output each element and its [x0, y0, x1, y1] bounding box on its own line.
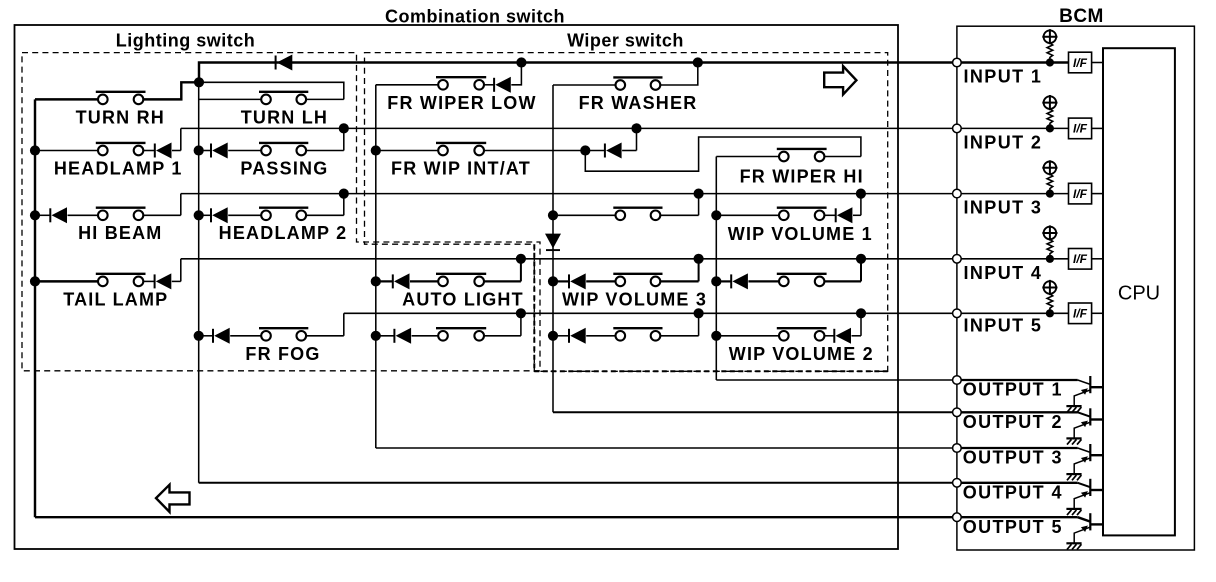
junction INPUT 4 right switch [856, 254, 866, 264]
svg-text:Combination switch: Combination switch [385, 7, 565, 27]
wire HEADLAMP 1 to diode [143, 150, 155, 152]
junction FR WIP INT/AT on x375.8 [371, 145, 381, 155]
junction INPUT 4 WIP VOLUME 3 [694, 254, 704, 264]
wire AUTO LIGHT diode feed [376, 280, 393, 282]
svg-text:OUTPUT 3: OUTPUT 3 [963, 448, 1063, 468]
wire TURN LH left [199, 98, 262, 100]
wire I/F INPUT 1 to CPU [1092, 62, 1103, 64]
svg-text:I/F: I/F [1073, 307, 1088, 321]
Wiper switch dashed box [365, 53, 888, 372]
svg-text:FR WIP INT/AT: FR WIP INT/AT [391, 158, 531, 178]
wire down to PASSING right contact [343, 128, 345, 150]
junction resistor INPUT 2 [1046, 124, 1054, 132]
junction INPUT 3 to HEADLAMP 2 [339, 189, 349, 199]
wire INPUT 3 line [181, 193, 957, 195]
wire I/F INPUT 4 to CPU [1092, 258, 1103, 260]
wire down to middle lower switch [698, 313, 700, 336]
junction FR WIPER LOW on INPUT 1 [516, 57, 526, 67]
wire down to middle switch right contact [698, 194, 700, 216]
wire OUTPUT 4 to transistor [961, 482, 1078, 484]
node OUTPUT 5 [953, 513, 962, 522]
wire vertical x375.8 to OUTPUT 3 [375, 85, 377, 448]
svg-text:OUTPUT 2: OUTPUT 2 [963, 412, 1063, 432]
wire TURN RH left [35, 98, 98, 100]
switch AUTO LIGHT [436, 274, 486, 286]
node OUTPUT 4 [953, 479, 962, 488]
junction middle switch on x553 [548, 210, 558, 220]
wire FR FOG right [306, 335, 344, 337]
diode D17 downward on x553 [545, 234, 561, 251]
wire FR WIPER HI right [824, 156, 861, 158]
svg-text:TURN LH: TURN LH [241, 108, 328, 128]
switch FR WIPER LOW [436, 77, 486, 89]
switch middle lower [613, 328, 662, 340]
svg-text:I/F: I/F [1073, 252, 1088, 266]
wire INPUT 4 corner down to TAIL LAMP diode [180, 259, 182, 282]
power symbol INPUT 4 [1042, 225, 1057, 240]
junction WIP VOLUME 2 on x716.3 [711, 331, 721, 341]
wire OUTPUT 5 line [35, 516, 957, 518]
junction middle lower switch on x553 [548, 331, 558, 341]
wire I/F INPUT 2 to CPU [1092, 127, 1103, 129]
wire WIP VOLUME 1 left [716, 214, 779, 216]
junction HI BEAM on left bus [30, 210, 40, 220]
wire FR WIP INT/AT right [484, 150, 605, 152]
wire FR WIPER LOW left [376, 84, 438, 86]
wire middle switch right [660, 214, 698, 216]
switch HEADLAMP 1 [96, 143, 146, 155]
wire diode D6 to HI BEAM [68, 214, 99, 216]
diode D10 [393, 273, 410, 289]
transistor Q5 [1074, 513, 1103, 543]
wire WIP VOLUME 2 to diode [824, 335, 834, 337]
wire HEADLAMP 1 diode to corner [172, 150, 181, 152]
node OUTPUT 1 [953, 376, 962, 385]
junction at turn switches [194, 77, 204, 87]
wire I/F INPUT 5 to CPU [1092, 312, 1103, 314]
diode D3 [155, 143, 172, 159]
svg-text:BCM: BCM [1059, 6, 1104, 27]
switch TURN LH [259, 92, 308, 104]
diode D16 [834, 328, 851, 344]
wire INPUT 1 to I/F [961, 61, 1069, 63]
wire right switch to corner [824, 280, 861, 282]
svg-text:FR WIPER HI: FR WIPER HI [740, 166, 864, 186]
wire OUTPUT 4 line [199, 482, 957, 484]
wire INPUT 5 corner down to FR FOG right [343, 313, 345, 336]
wire TAIL LAMP left thick [35, 280, 98, 282]
svg-text:I/F: I/F [1073, 122, 1088, 136]
junction INPUT 3 middle switch [694, 189, 704, 199]
diode D1 [276, 55, 293, 71]
wire OUTPUT 2 line [553, 411, 957, 413]
svg-text:Wiper switch: Wiper switch [567, 31, 684, 51]
diode D15 [569, 328, 586, 344]
svg-text:OUTPUT 4: OUTPUT 4 [963, 482, 1063, 502]
wire FR WIPER HI link path [585, 137, 861, 171]
svg-text:FR FOG: FR FOG [245, 344, 320, 364]
junction PASSING on vertical [194, 145, 204, 155]
wire TAIL LAMP to diode [143, 280, 154, 282]
junction FR WIP INT/AT right [580, 145, 590, 155]
switch TAIL LAMP [96, 274, 146, 286]
ground OUTPUT 2 [1066, 438, 1081, 444]
junction resistor INPUT 1 [1046, 58, 1054, 66]
svg-text:INPUT 4: INPUT 4 [964, 263, 1043, 283]
wire diode D7 to HEADLAMP 2 [228, 214, 261, 216]
switch wiper middle [613, 208, 662, 220]
switch WIP VOLUME 3 [613, 274, 662, 286]
wire AUTO LIGHT right [484, 280, 521, 282]
wire diode D8 to corner [853, 214, 861, 216]
svg-text:WIP VOLUME 2: WIP VOLUME 2 [729, 344, 874, 364]
wire diode D14 to lower-left switch [412, 335, 439, 337]
wire OUTPUT 3 to transistor [961, 447, 1078, 449]
ground OUTPUT 1 [1066, 406, 1081, 412]
svg-text:FR WASHER: FR WASHER [579, 93, 698, 113]
wire FR WIPER LOW diode up to INPUT 1 [511, 63, 521, 85]
switch lower-left [436, 328, 486, 340]
I/F box INPUT 4 [1069, 249, 1092, 270]
wire INPUT 4 line [181, 258, 957, 260]
wire INPUT 2 line [181, 127, 957, 129]
transistor Q2 [1074, 408, 1103, 438]
svg-text:AUTO LIGHT: AUTO LIGHT [402, 289, 524, 309]
junction WIP VOLUME 3 on x553 [548, 276, 558, 286]
node INPUT 5 [953, 309, 962, 318]
wire vertical x553 to OUTPUT 2 [552, 85, 554, 412]
wire down to AUTO LIGHT right contact [520, 259, 522, 282]
node OUTPUT 2 [953, 408, 962, 417]
wire INPUT 2 to I/F [961, 127, 1069, 129]
wire diode D9 up corner [172, 280, 181, 282]
wire WIP VOLUME 3 diode feed [553, 280, 569, 282]
wire INPUT 2 left corner down to HEADLAMP 1 diode [180, 128, 182, 150]
switch TURN RH [96, 92, 146, 104]
switch FR WASHER [613, 77, 662, 89]
junction resistor INPUT 5 [1046, 309, 1054, 317]
wire diode D13 to FR FOG [230, 335, 261, 337]
wire diode D16 to corner [852, 335, 862, 337]
I/F box INPUT 3 [1069, 183, 1092, 204]
svg-text:CPU: CPU [1118, 283, 1160, 305]
junction FR WASHER on INPUT 1 [693, 57, 703, 67]
wire INPUT 4 to I/F [961, 258, 1069, 260]
diode D4 [211, 143, 228, 159]
junction right switch on x716.3 [711, 276, 721, 286]
transistor Q1 [1074, 376, 1103, 406]
wire down to right switch diode [860, 259, 862, 282]
svg-text:WIP VOLUME 3: WIP VOLUME 3 [562, 289, 707, 309]
CPU box [1103, 48, 1175, 535]
switch PASSING [259, 143, 308, 155]
wire thick left bus vertical to OUTPUT 5 [34, 99, 36, 517]
I/F box INPUT 2 [1069, 118, 1092, 139]
wire OUTPUT 1 line [716, 379, 957, 381]
junction INPUT 4 AUTO LIGHT [516, 254, 526, 264]
node INPUT 2 [953, 124, 962, 133]
wire diode D10 to AUTO LIGHT [410, 280, 438, 282]
node INPUT 1 [953, 58, 962, 67]
ground OUTPUT 5 [1066, 543, 1081, 549]
wire vertical x716.3 to OUTPUT 1 [715, 157, 717, 381]
wire OUTPUT 5 to transistor [961, 516, 1078, 518]
wire FR WIPER LOW to diode [484, 84, 494, 86]
wire TURN LH right [306, 98, 344, 100]
wire PASSING diode [199, 150, 211, 152]
svg-text:HEADLAMP 2: HEADLAMP 2 [219, 223, 348, 243]
svg-text:OUTPUT 1: OUTPUT 1 [963, 380, 1063, 400]
wire FR WASHER left [553, 84, 616, 86]
diode D8 [836, 207, 853, 223]
svg-text:OUTPUT 5: OUTPUT 5 [963, 517, 1063, 537]
junction INPUT 2 diode branch [631, 123, 641, 133]
resistor squiggle INPUT 3 [1047, 174, 1053, 194]
wire HEADLAMP 1 left [35, 150, 98, 152]
power symbol INPUT 1 [1042, 29, 1057, 44]
junction INPUT 5 WIP VOLUME 2 [856, 308, 866, 318]
resistor squiggle INPUT 4 [1047, 239, 1053, 258]
wire down to WIP VOLUME 3 right contact [698, 259, 700, 282]
diode D12 [731, 273, 748, 289]
switch WIP VOLUME 2 [777, 328, 827, 340]
svg-text:Lighting switch: Lighting switch [116, 31, 256, 51]
svg-text:INPUT 5: INPUT 5 [964, 316, 1043, 336]
junction FR FOG on vertical [194, 331, 204, 341]
svg-text:TURN RH: TURN RH [76, 108, 165, 128]
junction WIP VOLUME 1 on x716.3 [711, 210, 721, 220]
wire WIP VOLUME 3 right [660, 280, 698, 282]
wire HEADLAMP 2 diode feed [199, 214, 211, 216]
switch HEADLAMP 2 [259, 208, 308, 220]
wire FR WIPER HI left [716, 156, 779, 158]
junction HEADLAMP 1 on left bus [30, 145, 40, 155]
diode D11 [569, 273, 586, 289]
wire INPUT 5 line [344, 312, 957, 314]
I/F box INPUT 1 [1069, 52, 1092, 73]
diode D9 [155, 273, 172, 289]
ground OUTPUT 3 [1066, 474, 1081, 480]
resistor squiggle INPUT 1 [1047, 43, 1053, 63]
resistor squiggle INPUT 2 [1047, 109, 1053, 128]
transistor Q4 [1074, 479, 1103, 509]
wire middle switch left [553, 214, 616, 216]
wire vertical x198.7 to OUTPUT 4 [198, 82, 200, 483]
junction HEADLAMP 2 on vertical [194, 210, 204, 220]
wire down to WIP VOLUME 1 diode [860, 194, 862, 216]
I/F box INPUT 5 [1069, 303, 1092, 324]
svg-text:I/F: I/F [1073, 56, 1088, 70]
switch wiper right [777, 274, 827, 286]
wire diode D15 to middle lower switch [586, 335, 615, 337]
open arrow left near OUTPUT lines [156, 485, 190, 512]
svg-text:INPUT 3: INPUT 3 [964, 198, 1043, 218]
node OUTPUT 3 [953, 444, 962, 453]
wire down to FR WIP INT/AT diode [636, 128, 638, 150]
diode D13 [213, 328, 230, 344]
junction resistor INPUT 3 [1046, 190, 1054, 198]
wire INPUT 3 corner down to HI BEAM [180, 194, 182, 216]
wire diode D11 to WIP VOLUME 3 [586, 280, 615, 282]
diode D2 [494, 77, 511, 93]
svg-text:HEADLAMP 1: HEADLAMP 1 [54, 158, 183, 178]
junction INPUT 5 lower-left switch [516, 308, 526, 318]
svg-text:PASSING: PASSING [240, 158, 328, 178]
transistor Q3 [1074, 444, 1103, 474]
wire OUTPUT 1 to transistor [961, 379, 1078, 381]
wire diode D5 up to INPUT 2 [622, 150, 636, 152]
power symbol INPUT 2 [1042, 95, 1057, 110]
diode D14 [394, 328, 411, 344]
wire OUTPUT 3 line [376, 447, 957, 449]
wire HI BEAM diode feed [35, 214, 50, 216]
BCM box [957, 26, 1195, 550]
wire FR WIP INT/AT left [376, 150, 438, 152]
junction TAIL LAMP on left bus [30, 276, 40, 286]
svg-text:FR WIPER LOW: FR WIPER LOW [387, 93, 536, 113]
junction resistor INPUT 4 [1046, 255, 1054, 263]
wire lower-left switch right [484, 335, 521, 337]
svg-text:INPUT 1: INPUT 1 [964, 67, 1043, 87]
junction INPUT 2 to PASSING [339, 123, 349, 133]
wire I/F INPUT 3 to CPU [1092, 193, 1103, 195]
wire middle lower switch right [660, 335, 698, 337]
wire middle lower diode feed [553, 335, 569, 337]
junction INPUT 3 WIP VOLUME 1 [856, 189, 866, 199]
wire down to WIP VOLUME 2 diode [860, 313, 862, 336]
svg-text:WIP VOLUME 1: WIP VOLUME 1 [728, 224, 873, 244]
node INPUT 4 [953, 254, 962, 263]
switch FR WIP INT/AT [436, 143, 486, 155]
wiper box bold dashed bottom edge [534, 244, 887, 371]
wire OUTPUT 2 to transistor [961, 411, 1078, 413]
wire INPUT 1 thick top line [199, 63, 957, 83]
switch FR FOG [259, 328, 308, 340]
wire INPUT 5 to I/F [961, 312, 1069, 314]
svg-text:I/F: I/F [1073, 187, 1088, 201]
wire FR FOG diode feed [199, 335, 213, 337]
switch WIP VOLUME 1 [777, 208, 827, 220]
junction INPUT 5 middle lower switch [694, 308, 704, 318]
svg-text:INPUT 2: INPUT 2 [964, 133, 1043, 153]
junction lower-left switch on x375.8 [371, 331, 381, 341]
diode D7 [211, 207, 228, 223]
wire WIP VOLUME 1 to diode [824, 214, 835, 216]
resistor squiggle INPUT 5 [1047, 294, 1053, 314]
svg-text:TAIL LAMP: TAIL LAMP [63, 289, 168, 309]
combination switch outer box [15, 25, 899, 549]
wire to TURN LH right contact [199, 82, 344, 99]
wire PASSING diode to left contact [228, 150, 261, 152]
svg-text:HI BEAM: HI BEAM [78, 223, 162, 243]
wire FR WASHER right up to INPUT 1 [660, 63, 698, 86]
diode D5 [605, 143, 622, 159]
wire diode D12 to right switch [748, 280, 779, 282]
wire TURN RH right jog up [143, 82, 199, 99]
switch HI BEAM [96, 208, 146, 220]
wire lower-left diode feed [376, 335, 395, 337]
switch FR WIPER HI [777, 149, 827, 161]
wire down to HEADLAMP 2 right contact [343, 194, 345, 216]
wire PASSING right [306, 150, 344, 152]
diode D6 [50, 207, 67, 223]
wire right switch diode feed [716, 280, 731, 282]
open arrow right on INPUT 1 [824, 66, 856, 94]
junction AUTO LIGHT on x375.8 [371, 276, 381, 286]
ground OUTPUT 4 [1066, 509, 1081, 515]
wire INPUT 3 to I/F [961, 193, 1069, 195]
wire down to lower-left switch right contact [520, 313, 522, 336]
power symbol INPUT 5 [1042, 280, 1057, 295]
node INPUT 3 [953, 189, 962, 198]
power symbol INPUT 3 [1042, 160, 1057, 175]
wire WIP VOLUME 2 left [716, 335, 779, 337]
wire HEADLAMP 2 right [306, 214, 344, 216]
Lighting switch dashed box [22, 53, 540, 371]
wire HI BEAM right [143, 214, 181, 216]
